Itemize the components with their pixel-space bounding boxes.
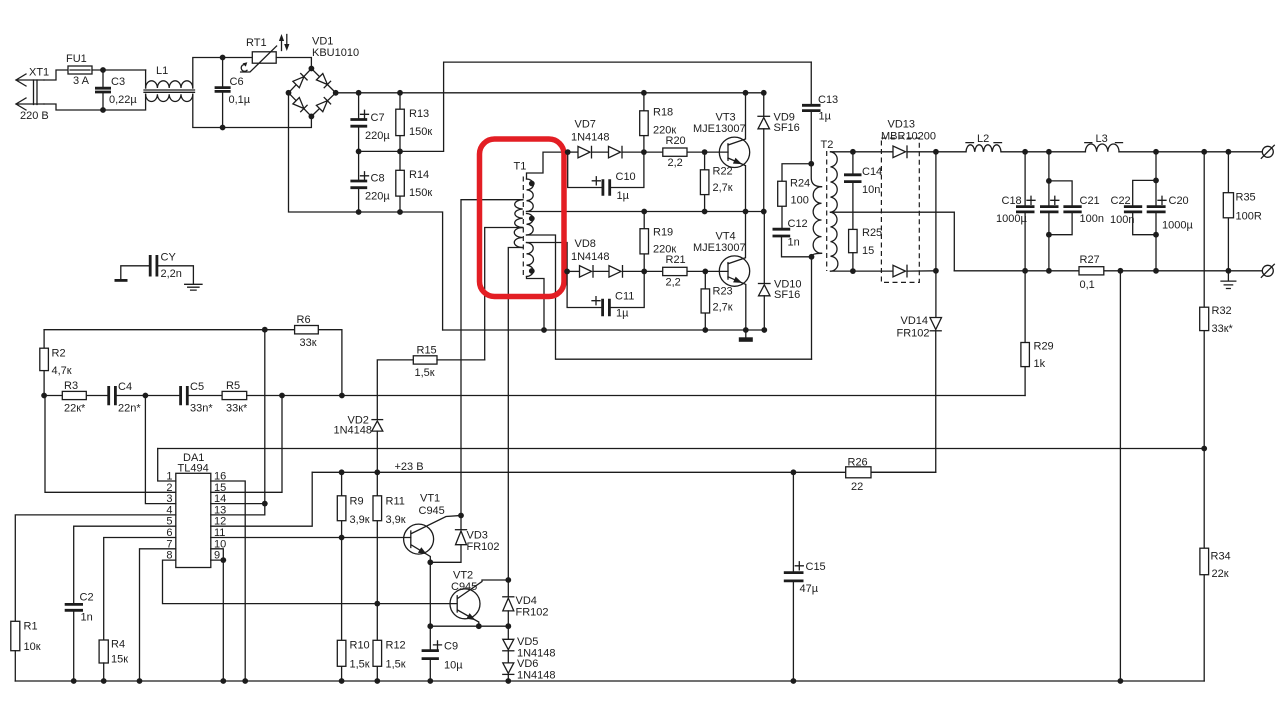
resistor R5 33k* bbox=[222, 380, 1025, 415]
resistor R10 1,5k bbox=[337, 538, 369, 684]
capacitor C6 0,1u bbox=[215, 55, 251, 131]
svg-text:C15: C15 bbox=[806, 561, 826, 573]
svg-text:VD14: VD14 bbox=[901, 315, 929, 327]
capacitor C22 100n (bracket) bbox=[1110, 178, 1159, 238]
svg-text:C5: C5 bbox=[190, 381, 204, 393]
wire: VD13 cathode bus down to VD14 bbox=[935, 152, 937, 318]
svg-text:3 A: 3 A bbox=[73, 75, 90, 87]
svg-text:R23: R23 bbox=[713, 286, 733, 298]
dual diode VD13 MBR10200 (dashed package box) bbox=[853, 119, 936, 283]
resistor R3 22k* bbox=[44, 380, 107, 415]
svg-text:FU1: FU1 bbox=[66, 53, 87, 65]
capacitor C20 1000u bbox=[1147, 149, 1194, 274]
wire: pin3 to C4/C5 node bbox=[145, 396, 175, 504]
DA1 pin numbers right 16-9 bbox=[214, 471, 226, 562]
svg-text:10n: 10n bbox=[862, 184, 880, 196]
svg-text:1N4148: 1N4148 bbox=[571, 132, 610, 144]
arrows (variability marks) near RT1 bbox=[279, 34, 290, 51]
svg-text:1N4148: 1N4148 bbox=[571, 251, 610, 263]
diode VD3 FR102 bbox=[430, 516, 499, 563]
resistor R12 1,5k bbox=[373, 604, 406, 684]
transformer T1 bbox=[514, 161, 535, 279]
svg-text:C10: C10 bbox=[616, 171, 636, 183]
svg-text:C12: C12 bbox=[788, 218, 808, 230]
wire: T2 primary bottom down to series-feedback line bbox=[811, 257, 813, 359]
resistor R18 220k bbox=[640, 90, 677, 155]
capacitor C2 1n bbox=[65, 592, 94, 684]
svg-text:R25: R25 bbox=[862, 227, 882, 239]
svg-text:VT3: VT3 bbox=[716, 112, 736, 124]
svg-text:1µ: 1µ bbox=[617, 190, 630, 202]
svg-text:C14: C14 bbox=[862, 166, 882, 178]
wire: pin8 to VT2 base row bbox=[163, 560, 458, 604]
capacitor C13 1u bbox=[802, 62, 838, 167]
svg-text:1000µ: 1000µ bbox=[1162, 220, 1193, 232]
svg-text:1n: 1n bbox=[788, 237, 800, 249]
svg-text:R11: R11 bbox=[386, 496, 405, 508]
svg-text:10µ: 10µ bbox=[444, 660, 463, 672]
svg-text:+23 В: +23 В bbox=[395, 461, 424, 473]
wire: pin7 to ground rail bbox=[137, 549, 176, 684]
capacitor C10 1u bbox=[568, 152, 644, 202]
resistor R27 0,1 bbox=[1079, 254, 1104, 291]
wire: feedback line y448.5 (pin1 to R32/R34 divider) bbox=[158, 446, 1207, 452]
resistor R11 3,9k bbox=[373, 472, 406, 606]
svg-text:33к: 33к bbox=[300, 337, 317, 349]
wire: T1 winding C top lead to VD8 anode bbox=[527, 243, 568, 272]
svg-text:VD3: VD3 bbox=[467, 530, 488, 542]
svg-text:150к: 150к bbox=[409, 126, 432, 138]
resistor R4 15k bbox=[99, 639, 128, 684]
svg-text:R9: R9 bbox=[350, 496, 364, 508]
fuse FU1 3 A bbox=[66, 53, 92, 87]
diode VD7 1N4148 (two series diodes) bbox=[565, 119, 644, 158]
svg-text:MJE13007: MJE13007 bbox=[693, 242, 746, 254]
wire: pin6 to R4 bbox=[104, 538, 176, 641]
svg-text:KBU1010: KBU1010 bbox=[312, 47, 359, 59]
output terminal (+) bbox=[1261, 145, 1274, 158]
ground symbol (under R35) bbox=[1221, 271, 1236, 289]
svg-text:R10: R10 bbox=[350, 640, 370, 652]
diode VD4 FR102 bbox=[503, 580, 549, 626]
svg-text:R15: R15 bbox=[417, 345, 437, 357]
svg-text:XT1: XT1 bbox=[29, 67, 49, 79]
svg-text:L2: L2 bbox=[977, 133, 989, 145]
wire: power ground rail y330 bbox=[443, 329, 765, 331]
svg-text:2,7к: 2,7к bbox=[713, 302, 733, 314]
svg-text:C7: C7 bbox=[371, 112, 385, 124]
svg-text:R3: R3 bbox=[64, 380, 78, 392]
resistor R15 1,5k bbox=[377, 345, 484, 419]
wire: pin11 to VT1 base bbox=[211, 537, 411, 539]
svg-text:3,9к: 3,9к bbox=[350, 514, 370, 526]
connector XT1 bbox=[16, 67, 49, 123]
svg-text:SF16: SF16 bbox=[774, 289, 800, 301]
output terminal (-) bbox=[1261, 264, 1274, 277]
resistor R34 22k bbox=[1200, 449, 1231, 682]
svg-text:C3: C3 bbox=[111, 76, 125, 88]
inductor L2 bbox=[966, 133, 1002, 152]
wire: pin2 to R2 bottom bbox=[45, 396, 176, 493]
svg-text:R20: R20 bbox=[666, 135, 686, 147]
svg-text:10к: 10к bbox=[24, 641, 41, 653]
resistor R14 150k bbox=[396, 151, 433, 215]
svg-text:100n: 100n bbox=[1110, 214, 1134, 226]
svg-text:100: 100 bbox=[791, 195, 809, 207]
svg-text:100R: 100R bbox=[1236, 211, 1262, 223]
wire: mains top lead bbox=[44, 70, 68, 80]
inductor L1 (common-mode choke) bbox=[103, 58, 223, 128]
wire: pin16 to ground rail bbox=[211, 481, 248, 684]
svg-text:R12: R12 bbox=[386, 640, 406, 652]
wire: main bottom ground rail y681 bbox=[15, 680, 1204, 682]
svg-text:22к*: 22к* bbox=[64, 403, 86, 415]
svg-text:2,2n: 2,2n bbox=[161, 268, 182, 280]
junction dot: winding C bottom on ground rail bbox=[541, 327, 547, 333]
capacitor C21 100n (bracket) bbox=[1046, 178, 1104, 238]
svg-text:TL494: TL494 bbox=[178, 463, 209, 475]
wire: +310V rail y93 bbox=[336, 92, 764, 94]
wire: T1 left winding bottom lead to VT2 collector bbox=[508, 248, 523, 581]
wire: minus sense down to ground rail (x1120.4) bbox=[1118, 268, 1124, 684]
red highlight box around T1 bbox=[480, 139, 565, 297]
svg-text:220 В: 220 В bbox=[20, 110, 49, 122]
bridge rectifier VD1 KBU1010 bbox=[286, 36, 359, 120]
capacitor C11 1u bbox=[567, 271, 644, 319]
svg-text:C2: C2 bbox=[80, 592, 94, 604]
wire: FU1 to C3/L1 bbox=[92, 69, 146, 71]
svg-text:33к*: 33к* bbox=[226, 403, 248, 415]
capacitor CY 2,2n bbox=[115, 252, 203, 291]
resistor R35 100R bbox=[1223, 149, 1262, 274]
svg-text:VT1: VT1 bbox=[420, 493, 440, 505]
svg-text:1k: 1k bbox=[1034, 358, 1046, 370]
svg-text:C18: C18 bbox=[1002, 195, 1022, 207]
svg-text:220µ: 220µ bbox=[365, 191, 390, 203]
svg-text:1000µ: 1000µ bbox=[996, 213, 1027, 225]
svg-text:C6: C6 bbox=[230, 76, 244, 88]
DA1 pin numbers left 1-8 bbox=[166, 471, 172, 562]
wire: output + rail y151.8 bbox=[936, 151, 1262, 153]
wire: output bottom rail y270.8 bbox=[954, 270, 1262, 272]
resistor R9 3,9k bbox=[337, 469, 369, 540]
svg-text:15: 15 bbox=[862, 245, 874, 257]
capacitor C4 22n* bbox=[109, 381, 149, 415]
svg-text:47µ: 47µ bbox=[800, 583, 819, 595]
svg-text:1N4148: 1N4148 bbox=[517, 670, 556, 682]
svg-text:VD4: VD4 bbox=[516, 595, 537, 607]
svg-text:3,9к: 3,9к bbox=[386, 514, 406, 526]
capacitor C15 47u bbox=[784, 469, 826, 683]
diode VD2 1N4148 bbox=[334, 415, 383, 476]
inductor L3 bbox=[1085, 133, 1123, 152]
svg-text:C9: C9 bbox=[444, 641, 458, 653]
svg-text:0,22µ: 0,22µ bbox=[109, 94, 137, 106]
svg-text:C21: C21 bbox=[1080, 195, 1100, 207]
resistor R20 2,2 bbox=[644, 135, 705, 169]
svg-text:2,2: 2,2 bbox=[666, 277, 681, 289]
svg-text:R34: R34 bbox=[1211, 551, 1231, 563]
resistor R25 15 bbox=[849, 227, 883, 274]
svg-text:R27: R27 bbox=[1080, 254, 1100, 266]
svg-text:4,7к: 4,7к bbox=[52, 365, 72, 377]
diode VD6 1N4148 bbox=[503, 651, 556, 684]
svg-text:VD13: VD13 bbox=[888, 119, 916, 131]
svg-text:R29: R29 bbox=[1034, 341, 1054, 353]
svg-text:VT4: VT4 bbox=[716, 231, 736, 243]
wire: T1 left winding top lead to VT1 collector bbox=[461, 200, 523, 516]
wire: VT1/VT2 emitter row y626.2 bbox=[427, 562, 511, 649]
svg-text:1,5к: 1,5к bbox=[386, 659, 406, 671]
diode VD5 1N4148 bbox=[503, 626, 556, 659]
capacitor C3 0,22u bbox=[95, 67, 137, 113]
svg-text:2,2: 2,2 bbox=[668, 157, 683, 169]
wire: pin5 to C2 bbox=[74, 526, 176, 603]
wire: bridge minus down and rail y212 bbox=[289, 93, 443, 330]
diode VD10 SF16 bbox=[759, 212, 802, 333]
resistor R22 2,7k bbox=[700, 152, 732, 214]
resistor R6 33k bbox=[44, 314, 345, 398]
resistor R32 33k* bbox=[1200, 149, 1234, 449]
svg-text:220µ: 220µ bbox=[365, 130, 390, 142]
svg-text:L1: L1 bbox=[156, 65, 168, 77]
svg-text:C22: C22 bbox=[1111, 195, 1131, 207]
svg-text:T1: T1 bbox=[514, 161, 527, 173]
wire: T1 winding C bottom lead to ground rail bbox=[527, 277, 545, 331]
capacitor C8 220u bbox=[350, 151, 390, 215]
svg-text:L3: L3 bbox=[1096, 133, 1108, 145]
svg-text:15к: 15к bbox=[111, 654, 128, 666]
svg-text:R4: R4 bbox=[111, 639, 125, 651]
capacitor C14 10n bbox=[844, 149, 882, 229]
capacitor C18 1000u bbox=[996, 149, 1035, 274]
svg-text:C13: C13 bbox=[818, 94, 838, 106]
svg-text:VD1: VD1 bbox=[312, 36, 333, 48]
wire: C6 bottom to bridge bottom corner bbox=[223, 116, 312, 127]
wire: RT1 to bridge top bbox=[276, 58, 311, 69]
svg-text:FR102: FR102 bbox=[897, 328, 930, 340]
diode VD14 FR102 bbox=[871, 315, 942, 472]
svg-text:22n*: 22n* bbox=[118, 403, 141, 415]
svg-text:CY: CY bbox=[161, 252, 177, 264]
svg-text:R5: R5 bbox=[226, 380, 240, 392]
wire: T1 left winding mid lead to R15 bbox=[485, 228, 523, 360]
resistor R2 4,7k bbox=[40, 330, 72, 399]
svg-text:R24: R24 bbox=[790, 178, 810, 190]
svg-text:22к: 22к bbox=[1212, 568, 1229, 580]
svg-text:1µ: 1µ bbox=[819, 111, 832, 123]
resistor R19 220k bbox=[640, 209, 676, 275]
svg-text:VD8: VD8 bbox=[575, 238, 596, 250]
svg-text:R26: R26 bbox=[848, 457, 868, 469]
svg-text:R13: R13 bbox=[409, 108, 429, 120]
svg-text:R19: R19 bbox=[653, 227, 673, 239]
svg-text:1N4148: 1N4148 bbox=[334, 425, 373, 437]
wire: pin12 to +23V rail bbox=[211, 472, 312, 526]
svg-text:VT2: VT2 bbox=[453, 570, 473, 582]
transistor VT4 MJE13007 bbox=[693, 212, 750, 333]
capacitor C7 220u bbox=[350, 90, 390, 154]
transistor VT1 C945 bbox=[404, 493, 464, 566]
svg-text:R6: R6 bbox=[297, 314, 311, 326]
wire: pin4 to R1 bbox=[15, 515, 176, 621]
svg-text:C945: C945 bbox=[419, 505, 445, 517]
svg-text:MBR10200: MBR10200 bbox=[881, 131, 936, 143]
capacitor C12 1n bbox=[773, 218, 815, 260]
resistor R24 100 bbox=[778, 164, 812, 228]
svg-text:33к*: 33к* bbox=[1212, 323, 1234, 335]
wire: pins 10+9 to ground rail bbox=[211, 549, 226, 684]
svg-text:0,1: 0,1 bbox=[1080, 279, 1095, 291]
svg-text:R21: R21 bbox=[666, 254, 686, 266]
svg-text:VD7: VD7 bbox=[575, 119, 596, 131]
svg-text:R2: R2 bbox=[52, 348, 66, 360]
capacitor C5 33n* bbox=[145, 381, 222, 415]
wire: +23V rail y472.3 bbox=[312, 461, 936, 473]
svg-text:VD6: VD6 bbox=[517, 658, 538, 670]
svg-text:1,5к: 1,5к bbox=[350, 659, 370, 671]
svg-text:FR102: FR102 bbox=[467, 541, 500, 553]
diode VD9 SF16 bbox=[758, 90, 800, 215]
resistor R26 22 bbox=[846, 457, 871, 494]
svg-text:T2: T2 bbox=[821, 139, 834, 151]
diode VD8 1N4148 (two series diodes) bbox=[564, 238, 644, 277]
svg-text:C20: C20 bbox=[1169, 195, 1189, 207]
svg-text:C8: C8 bbox=[371, 173, 385, 185]
svg-text:R14: R14 bbox=[409, 169, 429, 181]
svg-text:2,7к: 2,7к bbox=[713, 182, 733, 194]
svg-text:C945: C945 bbox=[451, 581, 477, 593]
wire: half-bridge mid rail y211.5 bbox=[527, 211, 764, 213]
svg-text:1µ: 1µ bbox=[616, 308, 629, 320]
wire: mains bottom lead bbox=[44, 104, 103, 110]
svg-text:0,1µ: 0,1µ bbox=[229, 94, 251, 106]
svg-text:R35: R35 bbox=[1236, 192, 1256, 204]
svg-text:RT1: RT1 bbox=[246, 37, 267, 49]
resistor R29 1k bbox=[1021, 271, 1054, 396]
svg-text:R1: R1 bbox=[24, 621, 38, 633]
svg-text:C11: C11 bbox=[615, 291, 634, 303]
transistor VT2 C945 bbox=[450, 570, 511, 630]
svg-text:22: 22 bbox=[851, 481, 863, 493]
svg-text:FR102: FR102 bbox=[516, 607, 549, 619]
svg-text:R22: R22 bbox=[713, 166, 733, 178]
svg-text:100n: 100n bbox=[1080, 213, 1104, 225]
wire: pin1 to feedback line bbox=[158, 449, 176, 482]
capacitor C9 10u bbox=[422, 641, 464, 684]
svg-text:R32: R32 bbox=[1212, 305, 1232, 317]
resistor R21 2,2 bbox=[644, 254, 705, 289]
svg-text:1n: 1n bbox=[81, 612, 93, 624]
svg-text:C4: C4 bbox=[118, 381, 132, 393]
svg-text:SF16: SF16 bbox=[774, 122, 800, 134]
transformer T2 bbox=[811, 139, 954, 271]
svg-text:1,5к: 1,5к bbox=[415, 367, 435, 379]
resistor R23 2,7k bbox=[701, 271, 733, 333]
svg-text:150к: 150к bbox=[409, 187, 432, 199]
svg-text:MJE13007: MJE13007 bbox=[693, 123, 746, 135]
svg-text:VD5: VD5 bbox=[517, 636, 538, 648]
capacitor (second electrolytic of C18 bank) bbox=[1040, 149, 1059, 274]
wire: T1 winding B bottom lead to T2 primary return bbox=[527, 235, 812, 359]
transistor VT3 MJE13007 bbox=[693, 90, 750, 215]
IC DA1 TL494 bbox=[176, 452, 211, 568]
resistor R13 150k bbox=[396, 90, 433, 154]
ground symbol (VT4 emitter) bbox=[739, 330, 753, 342]
wire: pins 14+13 to R6 node bbox=[211, 330, 268, 515]
wire: T1 winding A top lead to VD7 anode bbox=[527, 152, 568, 179]
svg-text:33n*: 33n* bbox=[190, 403, 213, 415]
thermistor RT1 bbox=[223, 37, 277, 72]
wire: C7/C8 midpoint to C13 feed (x443.6) bbox=[359, 62, 812, 151]
resistor R1 10k bbox=[11, 621, 41, 682]
wire: pin15 to R5 node bbox=[211, 396, 282, 493]
svg-text:R18: R18 bbox=[653, 107, 673, 119]
